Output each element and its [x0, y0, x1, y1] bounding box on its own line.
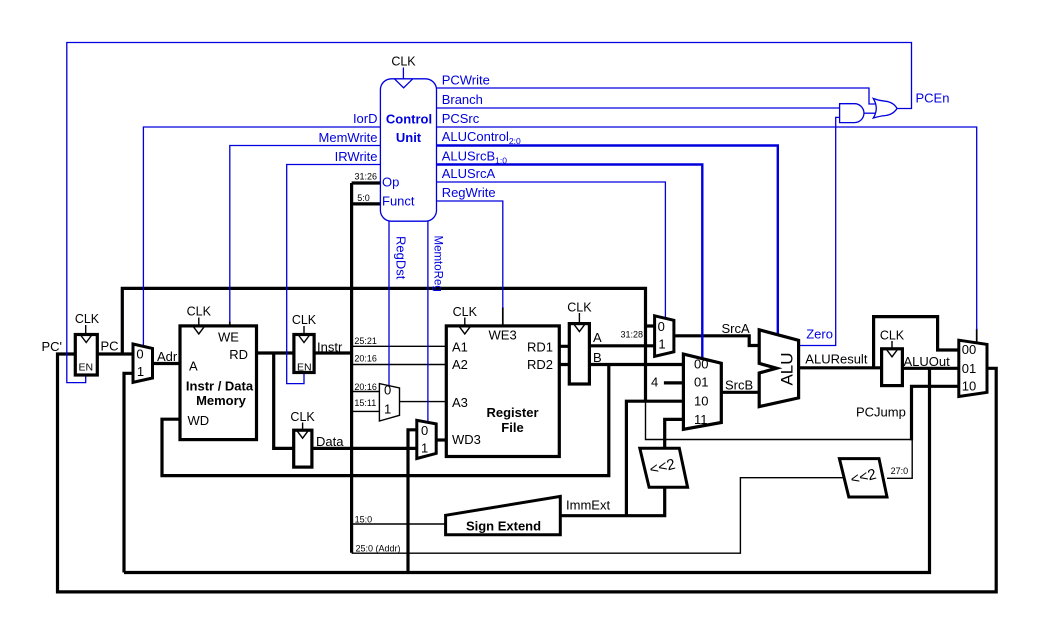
svg-text:0: 0 — [136, 346, 143, 361]
wire instruction vertical bus — [350, 183, 353, 553]
svg-text:Unit: Unit — [396, 130, 422, 145]
svg-text:A2: A2 — [452, 357, 468, 372]
wire Funct 5:0 tap to Control Unit — [352, 202, 381, 205]
wire 27:0 shifter 2 output to PCJump junction — [887, 440, 912, 479]
svg-text:RD2: RD2 — [527, 357, 553, 372]
svg-text:CLK: CLK — [292, 313, 317, 327]
svg-text:Memory: Memory — [196, 393, 247, 408]
wire ImmExt riser to SrcB mux 10 — [626, 401, 683, 516]
svg-text:PC': PC' — [42, 339, 63, 354]
wire PCEn from OR gate around top to PC register EN — [67, 43, 912, 383]
register Instr — [294, 335, 314, 373]
svg-text:1: 1 — [658, 336, 665, 351]
svg-text:PCJump: PCJump — [856, 404, 906, 419]
wire CLK stems — [86, 313, 892, 430]
svg-text:Instr: Instr — [317, 339, 343, 354]
svg-text:ALUControl2:0: ALUControl2:0 — [442, 129, 521, 146]
register Data — [294, 430, 312, 467]
clock wedge register file — [459, 326, 471, 334]
svg-text:CLK: CLK — [567, 301, 592, 315]
wire ALUSrcB to SrcB mux select — [437, 165, 703, 359]
mux MemtoReg — [417, 420, 436, 458]
wire Zero from ALU to AND gate — [799, 117, 840, 345]
svg-text:01: 01 — [962, 361, 976, 376]
wire PC output to Adr mux 0 and top PC bus to SrcA mux — [97, 288, 654, 400]
svg-text:EN: EN — [79, 361, 94, 373]
svg-text:A: A — [189, 358, 198, 373]
component Sign Extend — [446, 496, 561, 534]
op-amp none: Control Unit block — [380, 79, 436, 221]
svg-text:IRWrite: IRWrite — [335, 149, 378, 164]
wire 15:0 to Sign Extend — [352, 523, 446, 525]
svg-text:WE3: WE3 — [489, 327, 517, 342]
svg-text:RegWrite: RegWrite — [442, 185, 496, 200]
svg-text:10: 10 — [694, 394, 708, 409]
svg-text:ALUOut: ALUOut — [904, 354, 951, 369]
svg-text:CLK: CLK — [75, 312, 100, 326]
wire IRWrite to Instr register EN — [287, 165, 381, 384]
svg-text:ALUSrcB1:0: ALUSrcB1:0 — [442, 148, 508, 165]
svg-text:31:26: 31:26 — [355, 172, 378, 182]
svg-text:IorD: IorD — [353, 111, 378, 126]
wire PC' feedback from PCSrc mux output around bottom to PC register — [58, 354, 997, 592]
svg-text:A3: A3 — [452, 395, 468, 410]
svg-text:MemtoReg: MemtoReg — [432, 236, 444, 292]
svg-text:Adr: Adr — [157, 349, 178, 364]
wire MemtoReg to MemtoReg mux select — [427, 221, 429, 422]
clock wedge ALUOut register — [886, 349, 898, 357]
wire Branch to AND gate — [437, 107, 840, 109]
svg-text:CLK: CLK — [453, 305, 478, 319]
wire AND gate output to OR gate — [864, 112, 878, 114]
wire ALUResult to ALUOut register and bypass to PCSrc mux 00 — [799, 317, 959, 368]
wire PCSrc to PCSrc mux select — [437, 127, 977, 330]
wire ImmExt from Sign Extend to shifter — [560, 487, 664, 515]
svg-text:20:16: 20:16 — [354, 353, 377, 363]
wire MemWrite black stub at memory — [229, 322, 231, 327]
wire RegWrite to register file WE3 — [437, 201, 503, 308]
svg-text:RD: RD — [229, 347, 248, 362]
clock wedge PC register — [80, 335, 92, 343]
svg-text:01: 01 — [694, 375, 708, 390]
svg-text:CLK: CLK — [290, 410, 315, 424]
svg-text:Zero: Zero — [806, 326, 833, 341]
wire PCSrc black stub at mux — [976, 329, 978, 343]
svg-text:0: 0 — [384, 382, 391, 397]
component shifter 1 <<2 — [640, 448, 688, 487]
clock wedge A/B register — [573, 324, 585, 332]
svg-text:SrcA: SrcA — [722, 321, 751, 336]
clock wedge Control Unit — [394, 79, 412, 88]
svg-text:31:28: 31:28 — [621, 330, 644, 340]
mux SrcA — [655, 316, 674, 357]
svg-text:1: 1 — [137, 364, 144, 379]
wire 15:11 to RegDst mux 1 — [352, 410, 380, 412]
svg-text:1: 1 — [384, 402, 391, 417]
svg-text:ImmExt: ImmExt — [566, 498, 610, 513]
svg-text:11: 11 — [694, 412, 708, 427]
svg-text:Control: Control — [386, 111, 432, 126]
svg-text:CLK: CLK — [187, 305, 212, 319]
svg-text:00: 00 — [962, 342, 976, 357]
wire MemWrite to memory WE — [230, 146, 381, 323]
svg-text:RegDst: RegDst — [394, 236, 409, 280]
svg-text:Sign Extend: Sign Extend — [466, 519, 541, 534]
wire RegDst mux output to A3 — [400, 401, 447, 403]
svg-text:RD1: RD1 — [527, 339, 553, 354]
wire Data register output to MemtoReg mux 1 — [312, 447, 417, 450]
svg-text:0: 0 — [421, 423, 428, 438]
svg-text:A1: A1 — [452, 339, 468, 354]
svg-text:ALU: ALU — [778, 352, 797, 385]
wire ALUControl to ALU — [437, 146, 778, 335]
svg-text:PCEn: PCEn — [916, 90, 950, 105]
memory Instr / Data Memory — [180, 326, 257, 440]
svg-text:Branch: Branch — [442, 92, 483, 107]
svg-text:Instr / Data: Instr / Data — [186, 379, 254, 394]
mux RegDst — [379, 384, 399, 421]
svg-text:EN: EN — [297, 361, 312, 373]
wire RegWrite black stub at register file — [502, 307, 504, 326]
wire 25:0 (Addr) to shifter 2 — [352, 478, 845, 554]
clock wedge memory — [193, 326, 205, 334]
svg-text:SrcB: SrcB — [725, 377, 753, 392]
memory Register File — [446, 326, 559, 457]
mux Adr (IorD) — [133, 344, 153, 382]
svg-text:25:0 (Addr): 25:0 (Addr) — [356, 544, 401, 554]
wire ALUSrcA to SrcA mux select — [437, 182, 666, 319]
wire Op 31:26 tap to Control Unit — [352, 181, 381, 184]
wire B output to SrcB mux 00 — [589, 363, 683, 366]
wire SrcA mux output to ALU — [674, 336, 760, 346]
clock wedge Data register — [297, 430, 309, 438]
svg-text:MemWrite: MemWrite — [319, 130, 378, 145]
wire A output to SrcA mux 1 — [589, 344, 654, 347]
svg-text:PCWrite: PCWrite — [442, 72, 490, 87]
op-amp ALU — [759, 330, 798, 407]
wire MemtoReg mux output to WD3 — [436, 438, 446, 441]
component shifter 2 <<2 — [839, 459, 887, 497]
svg-text:File: File — [501, 420, 523, 435]
svg-text:10: 10 — [962, 378, 976, 393]
and gate — [840, 104, 864, 123]
svg-text:Op: Op — [382, 175, 399, 190]
wire PC 31:28 to PCJump junction — [646, 399, 912, 440]
wire ALUOut output to PCSrc mux 01 and bottom ALUOut bus — [124, 368, 959, 572]
wire 25:21 to A1 — [352, 345, 447, 347]
svg-text:00: 00 — [694, 356, 708, 371]
register A/B — [569, 324, 589, 384]
svg-text:WE: WE — [218, 330, 239, 345]
wire RegDst to RegDst mux select — [388, 221, 390, 386]
wire shifter 1 output to SrcB mux 11 — [665, 419, 684, 448]
wire 20:16 to A2 — [352, 364, 447, 366]
wire RD1 RD2 stubs into A/B register — [559, 346, 569, 364]
svg-text:27:0: 27:0 — [891, 466, 909, 476]
wire 20:16 to RegDst mux 0 — [352, 391, 380, 393]
svg-text:PCSrc: PCSrc — [442, 111, 480, 126]
svg-text:15:0: 15:0 — [355, 515, 373, 525]
wire Adr mux output to memory A — [153, 362, 181, 365]
or gate — [873, 99, 897, 119]
wire constant 4 to SrcB mux 01 — [664, 381, 684, 384]
svg-text:4: 4 — [651, 375, 658, 390]
svg-text:CLK: CLK — [391, 55, 416, 69]
register ALUOut — [882, 349, 903, 386]
wire ALUOut riser to Adr mux input 1 — [124, 373, 133, 572]
svg-text:B: B — [593, 350, 602, 365]
wire Instr register output to instruction bus — [314, 351, 352, 354]
wire SrcB mux output to ALU — [721, 391, 760, 394]
svg-text:PC: PC — [101, 339, 119, 354]
wire PCJump to PCSrc mux 10 — [912, 386, 959, 440]
svg-text:ALUSrcA: ALUSrcA — [442, 166, 496, 181]
svg-text:Data: Data — [316, 434, 344, 449]
svg-text:15:11: 15:11 — [354, 398, 376, 408]
svg-text:25:21: 25:21 — [354, 336, 377, 346]
svg-text:A: A — [593, 330, 602, 345]
svg-text:20:16: 20:16 — [354, 382, 377, 392]
wire CLK stem of Control Unit — [402, 68, 404, 79]
wire memory RD to Instr register and drop to Data register — [257, 353, 294, 448]
svg-text:1: 1 — [421, 440, 428, 455]
wire PCWrite to OR gate — [437, 88, 877, 104]
svg-text:WD: WD — [188, 413, 210, 428]
svg-text:Register: Register — [486, 405, 538, 420]
svg-text:WD3: WD3 — [452, 432, 481, 447]
mux SrcB — [683, 354, 721, 429]
svg-text:Funct: Funct — [382, 193, 415, 208]
wire B register to memory WD loop — [162, 365, 609, 476]
mux PCSrc — [959, 340, 987, 396]
svg-text:CLK: CLK — [880, 329, 905, 343]
svg-text:0: 0 — [658, 319, 665, 334]
register PC — [75, 335, 97, 376]
clock wedge Instr register — [298, 335, 310, 343]
svg-text:5:0: 5:0 — [357, 193, 370, 203]
svg-text:ALUResult: ALUResult — [805, 351, 868, 366]
wire ALUOut riser to MemtoReg mux 0 — [408, 430, 417, 573]
wire IorD to Adr mux select — [143, 127, 380, 346]
